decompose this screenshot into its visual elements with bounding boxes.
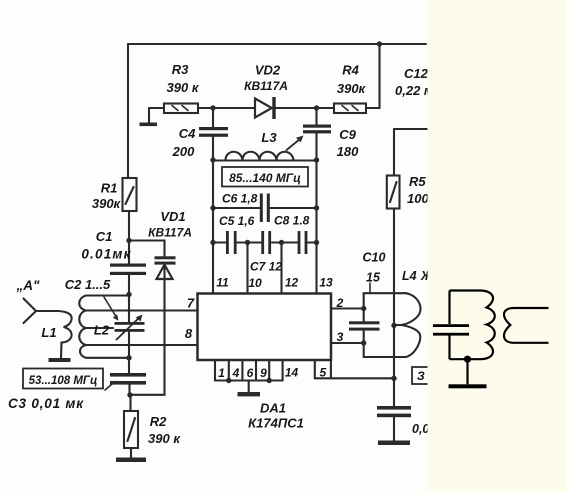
leader C10 <box>369 283 371 293</box>
svg-text:1: 1 <box>218 366 225 380</box>
inductor secondary clean <box>504 308 549 343</box>
ground L1 <box>49 358 71 362</box>
node C3 R2 VD1 <box>127 392 132 397</box>
inductor L3 <box>213 159 317 161</box>
svg-text:L1: L1 <box>41 325 56 340</box>
resistor R4 <box>317 107 335 109</box>
svg-text:6: 6 <box>247 366 254 380</box>
svg-text:53...108 МГц: 53...108 МГц <box>29 375 98 387</box>
ground C13 <box>378 441 410 446</box>
svg-text:C6 1,8: C6 1,8 <box>222 192 258 206</box>
svg-text:0.01мк: 0.01мк <box>81 247 131 262</box>
capacitor clean <box>433 324 469 327</box>
wire antenna to L1 <box>36 310 58 312</box>
svg-text:13: 13 <box>319 276 333 290</box>
box 85-140 МГц <box>222 167 308 187</box>
wire top rail clean <box>450 289 481 291</box>
capacitor C8 <box>298 231 301 254</box>
bottom pin cells <box>215 360 283 381</box>
svg-text:L4: L4 <box>402 269 417 283</box>
node tank top <box>126 292 131 297</box>
trimmer arrow L3 <box>287 139 301 150</box>
svg-text:VD2: VD2 <box>255 63 281 78</box>
svg-text:КВ117А: КВ117А <box>148 226 192 240</box>
wire VD1 to bottom node <box>130 265 165 395</box>
wire capacitor stems clean <box>448 291 450 360</box>
node VD1 tap <box>126 238 131 243</box>
svg-text:„А": „А" <box>16 278 40 293</box>
svg-text:12: 12 <box>285 276 299 290</box>
svg-text:R3: R3 <box>172 62 189 77</box>
resistor R1 <box>123 178 137 211</box>
svg-text:C2 1...5: C2 1...5 <box>65 277 111 292</box>
svg-text:4: 4 <box>232 366 240 380</box>
wire pin 3 <box>331 342 364 344</box>
cream panel <box>428 0 567 492</box>
wire pin 10 stub <box>246 243 248 295</box>
wire to C3 <box>128 358 130 373</box>
ground R2 <box>116 458 146 463</box>
svg-text:R5: R5 <box>409 174 426 189</box>
inductor L4 loop <box>364 293 406 308</box>
node top-right junction <box>377 41 382 46</box>
capacitor C7 <box>261 231 264 254</box>
wire C5 C7 C8 row <box>213 241 317 243</box>
svg-text:390 к: 390 к <box>167 80 200 95</box>
wire tank main <box>128 295 130 359</box>
svg-text:15: 15 <box>366 271 381 285</box>
svg-text:C4: C4 <box>179 126 196 141</box>
wire R1 to C1 <box>128 211 130 264</box>
svg-text:11: 11 <box>216 276 229 290</box>
op-amp IC DA1 box <box>198 294 332 361</box>
svg-text:R1: R1 <box>101 181 118 196</box>
capacitor C3 <box>110 373 146 377</box>
node L3 left <box>210 157 215 162</box>
svg-text:L2: L2 <box>94 323 110 338</box>
ground clean <box>466 359 468 384</box>
svg-text:9: 9 <box>260 366 267 380</box>
svg-text:85...140 МГц: 85...140 МГц <box>229 171 301 185</box>
wire right mid rail <box>315 160 317 294</box>
leader C2 <box>104 297 116 317</box>
wire bottom rail clean <box>450 358 481 360</box>
svg-text:C1: C1 <box>96 229 113 244</box>
svg-text:C8 1.8: C8 1.8 <box>274 214 310 228</box>
svg-text:10: 10 <box>248 276 262 290</box>
svg-text:5: 5 <box>319 366 326 380</box>
svg-text:L3: L3 <box>261 130 277 145</box>
wire R5 rail <box>394 129 428 406</box>
wire pin 8 tap <box>86 344 198 346</box>
node L4 tap <box>391 323 396 328</box>
capacitor C10 <box>363 309 365 322</box>
node L3 right <box>314 157 319 162</box>
wire left rail <box>127 44 129 178</box>
antenna A <box>24 299 37 324</box>
svg-text:200: 200 <box>172 144 195 159</box>
pin 5 cell <box>315 360 331 378</box>
capacitor C9 <box>315 108 317 125</box>
wire pin 12 stub <box>280 243 282 295</box>
svg-text:100: 100 <box>407 191 429 206</box>
wire pin 5 <box>315 377 394 379</box>
svg-text:R2: R2 <box>150 414 167 429</box>
wire VD1 branch <box>129 241 165 257</box>
node VD2 R4 C9 <box>314 105 319 110</box>
resistor R2 <box>129 395 131 411</box>
trimmer C2 <box>115 322 145 325</box>
node tank bottom <box>126 355 131 360</box>
wire left mid rail <box>212 160 214 294</box>
svg-text:14: 14 <box>285 366 299 380</box>
leader box53 <box>105 382 115 391</box>
resistor R3 <box>149 107 164 109</box>
ground DA1 <box>248 381 250 393</box>
capacitor C4 <box>212 108 214 127</box>
svg-text:C3 0,01 мк: C3 0,01 мк <box>8 396 84 411</box>
box 53-108 МГц <box>23 369 103 389</box>
node R3 C4 <box>210 105 215 110</box>
svg-text:2: 2 <box>336 296 344 310</box>
capacitor C6 <box>260 194 263 223</box>
node pin5 rail <box>391 376 396 381</box>
capacitor C1 <box>110 264 146 267</box>
inductor L1 <box>58 311 72 359</box>
wire pin 7 tap <box>86 309 198 311</box>
svg-text:390 к: 390 к <box>148 431 181 446</box>
capacitor C5 <box>226 231 229 254</box>
svg-text:R4: R4 <box>342 63 359 78</box>
node clean <box>464 356 471 363</box>
svg-text:390к: 390к <box>92 196 122 211</box>
svg-text:C9: C9 <box>339 127 356 142</box>
svg-text:8: 8 <box>185 326 193 341</box>
varicap VD1 <box>155 256 176 259</box>
inductor L2 <box>79 296 129 358</box>
svg-text:КВ117А: КВ117А <box>244 79 288 93</box>
wire C6 row <box>213 207 317 209</box>
ground R3 <box>148 108 150 123</box>
wire top rail <box>128 43 426 45</box>
svg-text:DA1: DA1 <box>260 401 286 416</box>
svg-text:З: З <box>417 369 425 383</box>
svg-text:К174ПС1: К174ПС1 <box>248 416 304 431</box>
svg-text:C10: C10 <box>363 251 386 265</box>
capacitor C13 bottom <box>377 406 411 410</box>
resistor R5 <box>387 176 400 209</box>
inductor primary clean <box>480 291 495 360</box>
svg-text:C5 1,6: C5 1,6 <box>219 214 255 228</box>
wire pin 2 <box>331 307 364 309</box>
svg-text:VD1: VD1 <box>160 209 185 224</box>
svg-text:3: 3 <box>337 330 344 344</box>
svg-text:0,0: 0,0 <box>412 422 429 436</box>
svg-text:390к: 390к <box>337 81 367 96</box>
svg-text:C12: C12 <box>404 66 429 81</box>
box 34 МГц <box>412 367 434 384</box>
svg-text:7: 7 <box>187 296 195 311</box>
varicap VD2 <box>213 107 255 109</box>
wire C1 to tank top <box>128 275 130 294</box>
svg-text:180: 180 <box>337 144 359 159</box>
svg-text:C7 12: C7 12 <box>250 260 282 274</box>
